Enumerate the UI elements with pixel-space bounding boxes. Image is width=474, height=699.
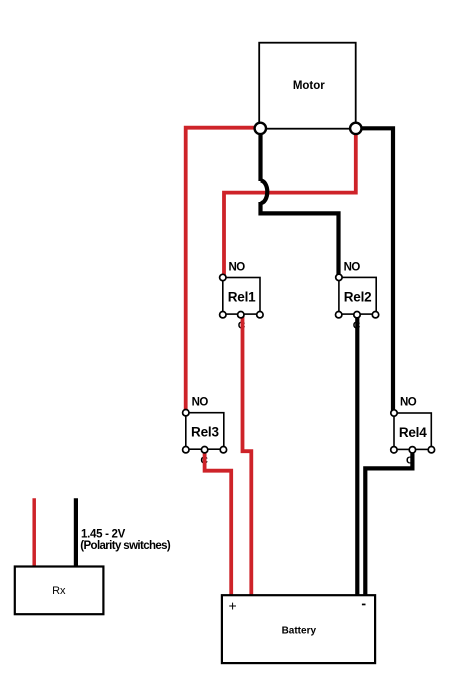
wire: red from motor left terminal, left then down to Rel3 NO	[186, 128, 261, 414]
relay Rel2 box	[339, 277, 376, 314]
Rel3 common terminal	[201, 447, 207, 453]
relay Rel4 box	[394, 413, 431, 449]
Rel2 bottom-right terminal	[372, 312, 378, 318]
Rel1 NO terminal	[220, 274, 226, 280]
Rel3 NO terminal	[183, 410, 189, 416]
Rel3 bottom-left terminal	[183, 447, 189, 453]
label - (battery negative)	[362, 604, 366, 606]
Rel4 bottom-right terminal	[428, 447, 434, 453]
svg-text:NO: NO	[229, 262, 246, 274]
svg-text:Motor: Motor	[293, 80, 325, 92]
svg-text:1.45 - 2V: 1.45 - 2V	[81, 528, 126, 540]
Rel2 common terminal	[354, 312, 360, 318]
svg-text:(Polarity switches): (Polarity switches)	[80, 540, 171, 552]
Rel1 common terminal	[238, 312, 244, 318]
wire: black from hop down, right, down to Rel2 NO	[261, 202, 339, 279]
svg-text:+: +	[229, 597, 237, 613]
svg-text:NO: NO	[192, 396, 209, 408]
svg-text:Rel1: Rel1	[228, 289, 256, 304]
battery box	[222, 595, 375, 663]
motor left terminal	[255, 123, 266, 134]
motor box	[259, 43, 356, 129]
wire: red from motor right terminal, down, left, down to Rel1 NO	[224, 132, 356, 279]
receiver Rx box	[15, 567, 104, 615]
Rel1 bottom-right terminal	[257, 312, 263, 318]
svg-text:Rel2: Rel2	[344, 289, 372, 304]
relay Rel1 box	[223, 278, 260, 315]
svg-text:Rx: Rx	[52, 585, 66, 597]
wire: black from motor right terminal, right then down to Rel4 NO	[360, 128, 393, 414]
Rel3 bottom-right terminal	[220, 447, 226, 453]
Rel2 NO terminal	[336, 274, 342, 280]
svg-text:NO: NO	[400, 396, 417, 408]
svg-text:Battery: Battery	[282, 626, 317, 637]
wire: black lead into Rx	[74, 498, 78, 567]
Rel4 bottom-left terminal	[391, 447, 397, 453]
Rel2 bottom-left terminal	[336, 312, 342, 318]
wire: black from motor left terminal down to hop	[258, 129, 262, 181]
Rel1 bottom-left terminal	[220, 312, 226, 318]
svg-text:NO: NO	[344, 262, 361, 274]
wire: red from Rel1 C terminal down with jog to battery +	[243, 315, 252, 595]
relay Rel3 box	[186, 413, 224, 450]
Rel4 NO terminal	[391, 410, 397, 416]
motor right terminal	[350, 123, 361, 134]
wire: red lead into Rx	[32, 498, 36, 567]
svg-text:Rel3: Rel3	[191, 425, 219, 440]
Rel4 common terminal	[409, 447, 415, 453]
svg-text:Rel4: Rel4	[399, 425, 427, 440]
wire hop: black jumps over red wire	[261, 181, 268, 204]
wire: red from Rel3 C terminal down, right, down to battery +	[205, 450, 232, 595]
wire: black from Rel4 C terminal down, left, down to battery -	[365, 450, 412, 595]
wire: black from Rel2 C terminal straight down to battery -	[355, 315, 359, 595]
